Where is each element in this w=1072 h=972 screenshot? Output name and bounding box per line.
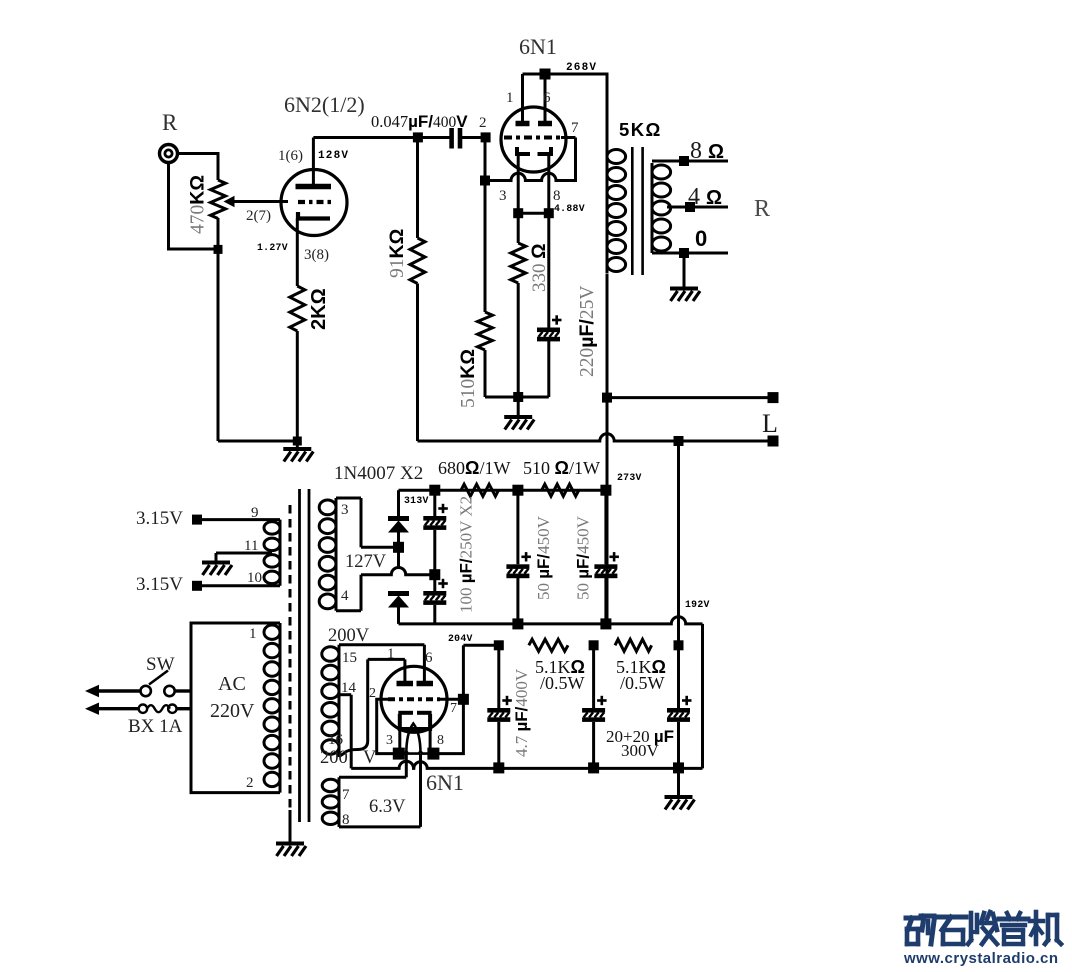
svg-text:6.3V: 6.3V bbox=[369, 797, 406, 817]
fuse BX 1A bbox=[139, 705, 147, 713]
resistor R8 5.1K first bbox=[529, 639, 568, 651]
T1 core solid lines bbox=[298, 489, 301, 822]
T2 secondary coil bbox=[652, 163, 671, 253]
winding W3 200V coil bbox=[339, 643, 424, 646]
node: cap midpoint bbox=[433, 530, 436, 591]
svg-text:2: 2 bbox=[369, 686, 376, 701]
ground: heater center tap bbox=[215, 553, 218, 562]
node: cathode ground junction bbox=[293, 437, 302, 446]
wire: grid pin7 to junction bbox=[440, 698, 458, 701]
winding W4 6.3V coil bbox=[339, 776, 406, 779]
capacitor C6 100uF/250V lower bbox=[423, 579, 448, 605]
svg-text:BX 1A: BX 1A bbox=[128, 716, 183, 737]
wire: grid tie line with hops over cathode leads bbox=[485, 173, 576, 180]
node: pin7 junction bbox=[458, 694, 469, 705]
wire: 8 ohm tap bbox=[652, 160, 728, 163]
node: B- rail junctions bbox=[493, 762, 504, 773]
V3 filament arch bbox=[406, 724, 420, 754]
svg-text:200V: 200V bbox=[328, 626, 370, 646]
resistor R7 510/1W bbox=[542, 484, 579, 496]
winding W1 AC220V primary box bbox=[191, 623, 280, 793]
capacitor C1 0.047uF/400V coupling bbox=[449, 128, 454, 149]
svg-text:7: 7 bbox=[571, 120, 579, 136]
node: grid tie junction bbox=[480, 176, 490, 186]
wire: 192V dropper vertical bbox=[677, 441, 680, 645]
svg-text:91KΩ: 91KΩ bbox=[386, 229, 408, 278]
V3 grid dashed line bbox=[388, 697, 440, 701]
wire: mains to switch bbox=[96, 689, 140, 692]
wire: 91K bottom to 192V rail corner bbox=[416, 284, 419, 442]
node: 4 ohm tap bbox=[685, 202, 695, 212]
wire: 6N2 plate to coupling cap junction bbox=[313, 136, 418, 139]
svg-text:/0.5W: /0.5W bbox=[620, 673, 665, 693]
svg-text:1: 1 bbox=[506, 90, 514, 106]
wire: 204V rail bbox=[463, 644, 498, 647]
svg-text:3: 3 bbox=[386, 733, 393, 748]
6N2 plate bar bbox=[296, 184, 332, 190]
svg-text:16: 16 bbox=[328, 732, 344, 748]
svg-text:5KΩ: 5KΩ bbox=[619, 119, 662, 140]
svg-text:192V: 192V bbox=[685, 599, 710, 610]
tube V3 6N1 rectifier envelope bbox=[381, 666, 447, 732]
capacitor C8 50uF/450V second bbox=[604, 490, 607, 564]
wire: input jack R to volume pot top bbox=[178, 152, 218, 155]
svg-text:470KΩ: 470KΩ bbox=[187, 175, 209, 234]
6N1 cathode right bbox=[538, 147, 552, 154]
wire: pin7 junction up to 204V rail bbox=[462, 645, 465, 699]
svg-text:2: 2 bbox=[479, 115, 487, 131]
svg-text:127V: 127V bbox=[345, 552, 387, 572]
resistor R3 2K cathode bbox=[290, 286, 305, 331]
wire: 6N1 plates to OT primary (268V rail) bbox=[523, 73, 608, 76]
wire: pin7 junction down to cathode pin8 bbox=[439, 699, 463, 753]
wire: pin16 squiggle to pin1 lead bbox=[339, 741, 368, 757]
wire: down to output transformer bbox=[606, 73, 609, 149]
wire: doubler top rail 313V bbox=[399, 489, 608, 492]
svg-text:3.15V: 3.15V bbox=[136, 574, 183, 595]
svg-text:50 µF/450V: 50 µF/450V bbox=[574, 515, 593, 600]
capacitor C3 220uF/25V cathode bypass bbox=[547, 213, 550, 327]
wire: grid junction down to pin7 tie line bbox=[484, 142, 487, 181]
node: B+ to L-channel feed bbox=[602, 393, 612, 403]
node: pot bottom junction bbox=[214, 245, 223, 254]
wire: 4 ohm tap bbox=[667, 206, 728, 209]
wire: pin3 lead bbox=[360, 498, 363, 547]
svg-text:220µF/25V: 220µF/25V bbox=[576, 286, 598, 377]
6N1 grid dashed line bbox=[504, 136, 561, 140]
svg-text:R: R bbox=[754, 196, 770, 222]
node: 192V filter junction bbox=[674, 640, 684, 650]
svg-text:330 Ω: 330 Ω bbox=[529, 244, 550, 292]
svg-text:3: 3 bbox=[499, 188, 507, 204]
svg-text:7: 7 bbox=[450, 701, 457, 716]
tube V2 6N1 envelope bbox=[501, 107, 566, 172]
node: mid filter junction bbox=[589, 640, 599, 650]
6N1 plate bars pins 1,6 bbox=[516, 121, 530, 127]
node: cathode tie junctions bbox=[513, 208, 523, 218]
6N2 grid dashed line bbox=[298, 200, 332, 204]
wire: 0 tap bbox=[652, 252, 728, 255]
wire: C1 to 6N1 grid junction bbox=[462, 136, 481, 139]
terminal: heater 3.15V bottom bbox=[192, 581, 202, 591]
node: doubler midpoint D1/D2 bbox=[393, 542, 404, 553]
6N1 cathode leads pins 3,8 bbox=[517, 156, 520, 213]
wire: right edge down from bottom rail bbox=[701, 624, 704, 769]
potentiometer VR1 470K zigzag body bbox=[211, 180, 226, 219]
svg-text:128V: 128V bbox=[318, 150, 349, 162]
wire: 192V line to L channel with hop over B+ bbox=[418, 434, 774, 441]
terminal: L channel 192V bbox=[768, 436, 779, 447]
node: ground junction bbox=[513, 392, 523, 402]
svg-text:8: 8 bbox=[553, 188, 561, 204]
svg-text:15: 15 bbox=[342, 650, 357, 666]
svg-text:50 µF/450V: 50 µF/450V bbox=[534, 515, 553, 600]
svg-text:6: 6 bbox=[425, 650, 433, 666]
capacitor C9 4.7uF/400V bbox=[497, 645, 500, 708]
capacitor C11 20uF second bbox=[677, 645, 680, 708]
capacitor C7 50uF/450V first bbox=[516, 490, 519, 564]
V3 cathode leads pins 3,8 bbox=[398, 729, 401, 754]
resistor R4 510K grid leak bbox=[484, 185, 487, 312]
6N1 plate leads bbox=[521, 74, 524, 121]
wire: jack ground side down bbox=[167, 162, 170, 249]
node: cathode junction squares bbox=[393, 748, 405, 760]
pot wiper arrow bbox=[224, 196, 235, 207]
wire: heater center tap 11 bbox=[216, 552, 272, 555]
wire: wiper to 6N2 grid bbox=[233, 200, 288, 203]
capacitor C5 100uF/250V upper bbox=[433, 490, 436, 516]
wire: fuse to primary bbox=[177, 707, 192, 710]
wire: junction to C1 bbox=[422, 136, 450, 139]
wire: B- rail with hops over filament leads bbox=[351, 761, 702, 768]
wire: cathode tie with wiggle bbox=[403, 752, 429, 754]
node: top rail cap junction bbox=[429, 485, 440, 496]
svg-text:V: V bbox=[363, 748, 377, 768]
node: 4.7uF junction bbox=[494, 640, 504, 650]
watermark logo kuangshi shouyinji bbox=[906, 912, 1061, 944]
svg-text:/0.5W: /0.5W bbox=[540, 673, 585, 693]
resistor R2 91K plate load bbox=[416, 138, 419, 239]
wire: winding pin3 to doubler mid bbox=[361, 546, 399, 549]
svg-text:4: 4 bbox=[341, 588, 349, 604]
wire: pin7 from grid right bbox=[561, 136, 576, 139]
output transformer T2 primary coil bbox=[607, 148, 626, 274]
V3 plate lead pin6 bbox=[423, 645, 426, 681]
node: bottom rail junctions bbox=[512, 618, 523, 629]
svg-text:300V: 300V bbox=[621, 741, 660, 760]
node: plate junction bbox=[540, 69, 551, 80]
svg-text:1: 1 bbox=[387, 646, 395, 662]
resistor R9 5.1K second bbox=[615, 639, 652, 651]
svg-text:1N4007 X2: 1N4007 X2 bbox=[334, 463, 423, 484]
V3 plate lead pin1 bbox=[403, 659, 406, 681]
svg-text:273V: 273V bbox=[617, 472, 642, 483]
6N2 plate lead pin 1(6) bbox=[312, 138, 315, 186]
node: 192V junction bbox=[674, 436, 684, 446]
wire: cathode network ground rail bbox=[485, 396, 549, 399]
svg-text:2(7): 2(7) bbox=[246, 208, 271, 224]
V3 plate bars bbox=[397, 681, 414, 687]
terminal: L channel B+ bbox=[768, 392, 779, 403]
svg-text:R: R bbox=[162, 110, 178, 135]
svg-text:6N2(1/2): 6N2(1/2) bbox=[284, 92, 365, 117]
wire: winding pin4 to cap mid with hop bbox=[361, 568, 435, 575]
svg-text:510 Ω/1W: 510 Ω/1W bbox=[523, 458, 600, 478]
svg-text:204V: 204V bbox=[448, 633, 473, 644]
svg-text:3(8): 3(8) bbox=[304, 247, 329, 263]
svg-text:AC: AC bbox=[218, 673, 246, 695]
svg-text:SW: SW bbox=[146, 654, 175, 675]
power transformer T1 core dashed bbox=[289, 505, 292, 810]
resistor R6 680/1W bbox=[461, 484, 499, 496]
svg-text:1: 1 bbox=[249, 626, 257, 642]
svg-text:6N1: 6N1 bbox=[426, 770, 464, 795]
svg-text:0: 0 bbox=[695, 226, 707, 251]
svg-text:8 Ω: 8 Ω bbox=[690, 138, 724, 164]
svg-text:4 Ω: 4 Ω bbox=[688, 184, 722, 210]
svg-text:268V: 268V bbox=[566, 62, 597, 74]
ground: cathode network bbox=[517, 397, 520, 417]
wire: 273V line to L channel bbox=[607, 396, 773, 399]
svg-text:2KΩ: 2KΩ bbox=[308, 288, 330, 330]
svg-text:3.15V: 3.15V bbox=[136, 508, 183, 529]
wire: doubler bottom rail with hop over 192V line bbox=[399, 617, 703, 624]
ground: secondary 0 tap bbox=[683, 253, 686, 288]
wire: mains to fuse bbox=[96, 707, 139, 710]
svg-text:1(6): 1(6) bbox=[278, 148, 303, 164]
wire: pot bottom to junction bbox=[217, 218, 220, 250]
node: 8 ohm tap bbox=[679, 156, 689, 166]
V3 cathode cup bbox=[398, 711, 413, 715]
svg-text:1.27V: 1.27V bbox=[257, 242, 288, 253]
svg-text:0.047µF/400V: 0.047µF/400V bbox=[371, 112, 468, 131]
AC input arrow top bbox=[85, 685, 99, 697]
switch blade bbox=[149, 671, 168, 685]
svg-text:200: 200 bbox=[320, 748, 348, 768]
svg-text:3: 3 bbox=[341, 502, 349, 518]
W1 primary coil bbox=[264, 623, 280, 793]
svg-text:6: 6 bbox=[543, 90, 551, 106]
wire: 6.3V bottom edge pin8 bbox=[339, 825, 421, 828]
svg-text:4.7 µF/400V: 4.7 µF/400V bbox=[512, 668, 531, 757]
wire: grid pin2 to cathode pin3 bbox=[377, 699, 393, 753]
wire+coil: heater winding 9-11-10 bbox=[197, 518, 280, 521]
ground: core bbox=[289, 810, 292, 843]
wire: pin4 lead bbox=[360, 575, 363, 611]
wire: cathode tie bbox=[518, 212, 549, 215]
AC input arrow bottom bbox=[85, 703, 99, 715]
svg-text:8: 8 bbox=[437, 733, 444, 748]
svg-text:680Ω/1W: 680Ω/1W bbox=[438, 458, 510, 478]
wire: 2K bottom to ground rail bbox=[296, 331, 299, 441]
svg-text:L: L bbox=[762, 409, 778, 438]
6N2 cathode lead pin 3(8) bbox=[296, 219, 299, 287]
svg-text:220V: 220V bbox=[210, 700, 255, 722]
svg-text:www.crystalradio.cn: www.crystalradio.cn bbox=[903, 950, 1058, 967]
resistor R5 330 ohm cathode bbox=[517, 213, 520, 243]
svg-text:2: 2 bbox=[246, 775, 254, 791]
svg-text:10: 10 bbox=[247, 570, 262, 586]
wire: switch to primary bbox=[175, 689, 191, 692]
svg-text:7: 7 bbox=[342, 787, 350, 803]
capacitor C10 20uF first bbox=[592, 645, 595, 708]
wire: tap 14 bbox=[339, 693, 351, 696]
6N1 cathode left bbox=[517, 147, 530, 154]
T2 core lines bbox=[631, 147, 634, 275]
node: 6N1 grid junction pin2 bbox=[481, 132, 491, 142]
winding W2 127V coil bbox=[336, 497, 361, 500]
wire: B+ 273V down from OT primary bbox=[606, 274, 609, 624]
svg-text:9: 9 bbox=[251, 505, 259, 521]
switch SW contacts bbox=[141, 686, 151, 696]
svg-text:6N1: 6N1 bbox=[519, 34, 557, 59]
input jack R (RCA) bbox=[160, 145, 178, 163]
ground: 6N2 cathode bbox=[296, 441, 299, 449]
rectifier diodes D1 D2 1N4007 string bbox=[397, 490, 400, 516]
node: 0 tap bbox=[679, 248, 689, 258]
node: B+/510ohm junction bbox=[600, 485, 611, 496]
6N2 cathode bar bbox=[298, 212, 330, 219]
svg-text:313V: 313V bbox=[404, 495, 429, 506]
svg-text:4.88V: 4.88V bbox=[554, 203, 585, 214]
V3 filament leads to 6.3V winding bbox=[405, 754, 408, 778]
node: 680/510 junction bbox=[512, 485, 523, 496]
wire: pot junction down to cathode ground rail bbox=[217, 249, 220, 441]
ground: main filter bbox=[677, 768, 680, 797]
terminal: heater 3.15V top bbox=[192, 515, 202, 525]
node A: plate/cap/91K junction bbox=[413, 132, 423, 142]
svg-text:510KΩ: 510KΩ bbox=[457, 349, 479, 408]
svg-text:100 µF/250V X2: 100 µF/250V X2 bbox=[457, 496, 476, 613]
tube V1 6N2 envelope bbox=[281, 170, 347, 236]
